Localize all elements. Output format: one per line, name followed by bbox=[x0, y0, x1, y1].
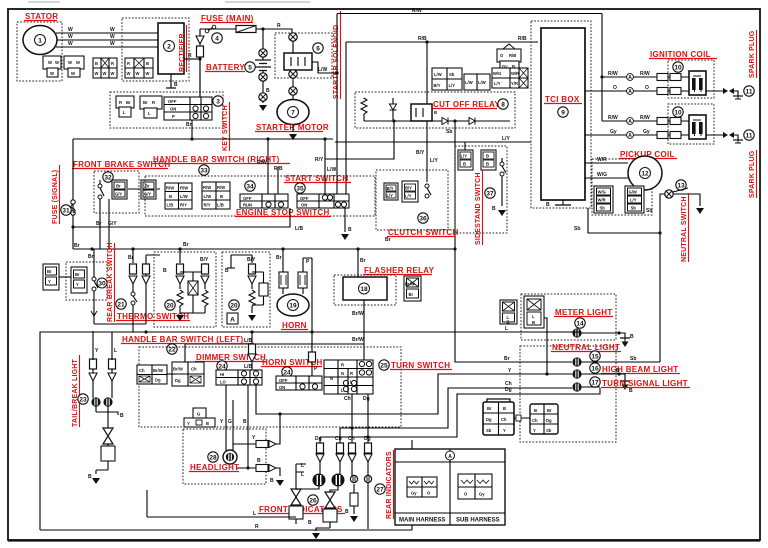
connector block 3 B-R/WWW bbox=[93, 58, 117, 78]
svg-text:Y: Y bbox=[76, 282, 79, 287]
TCI dashed box bbox=[531, 21, 591, 208]
svg-text:W: W bbox=[71, 71, 75, 76]
svg-text:W: W bbox=[68, 27, 73, 33]
svg-text:15: 15 bbox=[591, 354, 599, 361]
spark plug 1 bbox=[706, 90, 723, 92]
svg-text:B: B bbox=[266, 88, 270, 94]
high beam wire Y bbox=[256, 374, 572, 414]
svg-text:FUSE (MAIN): FUSE (MAIN) bbox=[201, 14, 254, 23]
wire R/Y L/W drops to start switch bbox=[324, 139, 326, 194]
svg-text:TURN SWITCH: TURN SWITCH bbox=[391, 361, 450, 370]
svg-text:W/R: W/R bbox=[597, 157, 607, 163]
svg-text:B: B bbox=[463, 162, 466, 167]
wire R/W row3 bbox=[602, 120, 689, 122]
connector G/W L/Y Sb bbox=[625, 186, 644, 213]
svg-text:R/W: R/W bbox=[257, 160, 267, 166]
wire R into key switch bbox=[199, 59, 201, 97]
wire R/W row1 bbox=[602, 76, 689, 78]
horn feeds bbox=[283, 249, 303, 272]
svg-text:36: 36 bbox=[419, 216, 427, 223]
svg-text:Y: Y bbox=[187, 421, 190, 426]
svg-text:G/W: G/W bbox=[629, 190, 637, 195]
svg-text:FLASHER RELAY: FLASHER RELAY bbox=[364, 266, 435, 275]
node 3 bbox=[213, 96, 223, 106]
pickup coil G2 bbox=[628, 156, 662, 190]
svg-text:W: W bbox=[48, 60, 52, 65]
svg-text:Br: Br bbox=[145, 184, 150, 189]
spark plug 2 bbox=[706, 134, 723, 136]
svg-text:R/Y: R/Y bbox=[180, 203, 187, 208]
svg-text:START SWITCH: START SWITCH bbox=[285, 174, 348, 183]
rear brake switch S bbox=[92, 277, 96, 281]
svg-text:NEUTRAL SWITCH: NEUTRAL SWITCH bbox=[681, 196, 688, 262]
svg-text:Y: Y bbox=[503, 428, 506, 433]
indicator fuses bbox=[317, 443, 324, 453]
fuse main F1 bbox=[200, 28, 236, 30]
tail bulbs bbox=[91, 397, 100, 406]
svg-text:A: A bbox=[230, 317, 235, 324]
wire meter B drop bbox=[544, 318, 547, 374]
headlight dashed box bbox=[183, 429, 266, 484]
cut off relay K2 bbox=[411, 104, 432, 121]
front brake switch S bbox=[98, 184, 102, 188]
svg-text:17: 17 bbox=[591, 380, 599, 387]
svg-text:B: B bbox=[616, 368, 620, 374]
svg-text:Br: Br bbox=[385, 237, 391, 243]
svg-text:OFF: OFF bbox=[243, 196, 252, 201]
svg-text:35: 35 bbox=[296, 186, 304, 193]
svg-text:Ch: Ch bbox=[532, 418, 538, 423]
sidestand connector b bbox=[481, 150, 496, 170]
svg-text:Dg: Dg bbox=[175, 378, 181, 383]
svg-text:B: B bbox=[88, 474, 92, 480]
svg-text:Br: Br bbox=[547, 408, 552, 413]
svg-text:L/Y: L/Y bbox=[461, 154, 468, 159]
svg-text:R: R bbox=[119, 100, 122, 105]
svg-text:HANDLE BAR SWITCH (LEFT): HANDLE BAR SWITCH (LEFT) bbox=[122, 335, 243, 344]
node 23 bbox=[78, 394, 88, 404]
front brake dashed box bbox=[94, 171, 139, 213]
svg-text:REAR INDICATORS: REAR INDICATORS bbox=[386, 451, 393, 519]
svg-text:Br: Br bbox=[143, 100, 148, 105]
svg-text:26: 26 bbox=[309, 498, 317, 505]
svg-text:Br/W: Br/W bbox=[405, 282, 415, 287]
svg-text:B: B bbox=[534, 408, 537, 413]
svg-text:B/Y: B/Y bbox=[434, 83, 441, 88]
svg-text:4: 4 bbox=[215, 36, 219, 43]
svg-text:Sb: Sb bbox=[446, 129, 452, 135]
connector row L/W Sb B/Y L/Y bbox=[432, 68, 528, 90]
diode in relay bbox=[390, 104, 397, 110]
svg-text:B: B bbox=[146, 61, 149, 66]
dimmer HI/LO table bbox=[216, 370, 262, 385]
clutch connector a bbox=[384, 183, 398, 200]
svg-text:L/Y: L/Y bbox=[630, 198, 637, 203]
svg-text:B: B bbox=[206, 421, 209, 426]
svg-text:W: W bbox=[111, 71, 115, 76]
start switch table bbox=[297, 194, 349, 208]
svg-text:RUN: RUN bbox=[243, 203, 252, 208]
svg-text:OFF: OFF bbox=[168, 99, 177, 104]
svg-text:Sb: Sb bbox=[600, 206, 606, 211]
fuse signal F2 bbox=[72, 139, 74, 249]
wire Sb drop bbox=[454, 121, 456, 249]
svg-text:R/Y: R/Y bbox=[204, 203, 211, 208]
svg-text:10: 10 bbox=[674, 65, 682, 72]
svg-text:L: L bbox=[148, 111, 151, 116]
svg-text:Ch: Ch bbox=[191, 367, 197, 372]
turn switch table bbox=[324, 360, 373, 394]
svg-text:11: 11 bbox=[746, 133, 753, 140]
svg-text:Sb: Sb bbox=[631, 206, 637, 211]
flasher dashed box bbox=[334, 275, 396, 305]
svg-text:L/W: L/W bbox=[204, 194, 212, 199]
label TURN SWITCH bbox=[379, 360, 389, 370]
6pin connector b bbox=[514, 404, 558, 434]
wire P riser from horn switch bbox=[303, 258, 312, 332]
branch bulb box bbox=[188, 281, 198, 295]
svg-text:B: B bbox=[503, 406, 506, 411]
svg-text:CUT OFF RELAY: CUT OFF RELAY bbox=[433, 100, 501, 109]
sub harness connector bbox=[458, 474, 492, 499]
neutral light wire Br bbox=[455, 249, 572, 362]
meter light bulb bbox=[572, 328, 581, 337]
svg-text:P: P bbox=[172, 114, 175, 119]
svg-text:Y/R: Y/R bbox=[511, 81, 518, 86]
svg-text:Br: Br bbox=[487, 406, 492, 411]
wire O row2 bbox=[585, 90, 689, 92]
svg-text:B: B bbox=[308, 520, 312, 526]
sidestand dashed box bbox=[455, 146, 507, 233]
label CUT OFF RELAY bbox=[355, 92, 515, 128]
branch B fuse bbox=[179, 249, 181, 289]
connector W block 1 bbox=[43, 56, 61, 77]
connector Br G/Y b bbox=[128, 180, 160, 199]
svg-text:R/B: R/B bbox=[509, 53, 516, 58]
svg-text:W: W bbox=[68, 41, 73, 47]
wire Br feed line bbox=[73, 138, 333, 140]
wire Ch to lights bbox=[340, 388, 572, 428]
svg-text:Br: Br bbox=[504, 356, 510, 362]
svg-text:Dg: Dg bbox=[486, 417, 492, 422]
svg-text:10: 10 bbox=[674, 110, 682, 117]
connector Br/Y b bbox=[59, 267, 87, 293]
diode D3 bbox=[469, 118, 475, 125]
svg-text:R/W: R/W bbox=[180, 186, 188, 191]
branch B entry box2 bbox=[231, 255, 252, 263]
svg-text:Sb: Sb bbox=[486, 428, 492, 433]
lights unit dashed box 1 bbox=[154, 252, 216, 327]
battery BT1 bbox=[262, 29, 264, 49]
svg-text:L/W: L/W bbox=[180, 194, 188, 199]
label HIGH BEAM LIGHT bbox=[590, 363, 600, 373]
rear brake dashed box bbox=[66, 262, 107, 300]
svg-text:A: A bbox=[628, 133, 632, 139]
svg-text:B: B bbox=[546, 202, 550, 208]
svg-text:HI: HI bbox=[220, 372, 224, 377]
stator generator G1 bbox=[23, 26, 57, 55]
front indicator bulbs bbox=[313, 474, 326, 487]
svg-text:IGNITION COIL: IGNITION COIL bbox=[650, 50, 711, 59]
svg-text:TURN SIGNAL LIGHT: TURN SIGNAL LIGHT bbox=[602, 379, 688, 388]
svg-text:20: 20 bbox=[166, 303, 174, 310]
svg-text:HORN: HORN bbox=[282, 321, 307, 330]
svg-text:NEUTRAL LIGHT: NEUTRAL LIGHT bbox=[552, 343, 620, 352]
wire L/W from solenoid bbox=[312, 62, 337, 73]
svg-text:B: B bbox=[220, 194, 223, 199]
svg-text:Br: Br bbox=[276, 255, 282, 261]
svg-text:27: 27 bbox=[376, 487, 384, 494]
svg-text:9: 9 bbox=[561, 110, 565, 117]
svg-text:L/B: L/B bbox=[295, 226, 303, 232]
svg-text:B/Y: B/Y bbox=[247, 257, 256, 263]
svg-text:L: L bbox=[505, 326, 508, 332]
svg-text:13: 13 bbox=[677, 183, 685, 190]
svg-text:L: L bbox=[114, 348, 117, 354]
solenoid dashed box bbox=[275, 33, 332, 78]
wire R/W riser to coils bbox=[601, 14, 603, 122]
flasher feed bbox=[357, 249, 359, 277]
horn switch table bbox=[276, 376, 322, 390]
svg-text:Gy: Gy bbox=[479, 492, 485, 497]
svg-text:O: O bbox=[645, 85, 649, 91]
svg-text:7: 7 bbox=[291, 110, 295, 117]
svg-text:Sb: Sb bbox=[546, 428, 552, 433]
svg-text:W/G: W/G bbox=[598, 190, 606, 195]
wire R/B riser left bbox=[345, 42, 347, 194]
connector Br G/Y a bbox=[112, 180, 127, 199]
wire rectifier B ground bbox=[170, 74, 172, 86]
svg-text:B: B bbox=[95, 61, 98, 66]
wire L/Y drop to sidestand bbox=[464, 142, 466, 150]
svg-text:33: 33 bbox=[200, 168, 208, 175]
svg-text:RECTIFIER: RECTIFIER bbox=[179, 33, 186, 72]
label TURN SIGNAL LIGHT bbox=[590, 377, 600, 387]
svg-text:B: B bbox=[345, 509, 349, 515]
svg-text:Ch: Ch bbox=[335, 436, 342, 442]
diode D2 bbox=[442, 118, 448, 125]
svg-text:Br/W: Br/W bbox=[352, 311, 364, 317]
svg-text:Gy: Gy bbox=[610, 129, 617, 135]
svg-text:B: B bbox=[492, 206, 496, 212]
svg-text:ON: ON bbox=[170, 107, 176, 112]
svg-text:W: W bbox=[110, 41, 115, 47]
svg-text:B/Y: B/Y bbox=[200, 257, 209, 263]
svg-text:6: 6 bbox=[316, 46, 320, 53]
svg-text:11: 11 bbox=[746, 89, 753, 96]
svg-text:W: W bbox=[50, 71, 54, 76]
svg-text:Br: Br bbox=[183, 242, 189, 248]
svg-text:B: B bbox=[169, 194, 172, 199]
svg-text:8: 8 bbox=[501, 102, 505, 109]
svg-text:Y: Y bbox=[533, 428, 536, 433]
svg-text:ENGINE STOP SWITCH: ENGINE STOP SWITCH bbox=[236, 208, 330, 217]
svg-text:B: B bbox=[348, 227, 352, 233]
svg-text:W/G: W/G bbox=[493, 71, 501, 76]
svg-text:L: L bbox=[253, 511, 256, 517]
svg-text:SPARK PLUG: SPARK PLUG bbox=[749, 150, 756, 198]
wire P into horn switch bbox=[311, 332, 313, 352]
svg-text:W: W bbox=[146, 71, 150, 76]
wire left main drop bbox=[39, 332, 41, 531]
wire Br/W cross line bbox=[185, 343, 364, 345]
svg-text:W: W bbox=[95, 71, 99, 76]
svg-text:L/Y: L/Y bbox=[387, 193, 394, 198]
svg-text:R: R bbox=[188, 53, 192, 59]
svg-text:B: B bbox=[629, 388, 633, 394]
svg-text:ON: ON bbox=[279, 385, 285, 390]
svg-text:Br: Br bbox=[75, 272, 80, 277]
svg-text:B: B bbox=[225, 268, 229, 274]
headlight B return bbox=[237, 467, 256, 469]
horn B1 bbox=[277, 294, 309, 316]
wire Br rail bbox=[73, 248, 455, 250]
svg-text:A: A bbox=[628, 119, 632, 125]
svg-text:Br: Br bbox=[47, 269, 52, 274]
svg-text:W: W bbox=[68, 34, 73, 40]
wire L/B from stop switch bbox=[73, 208, 290, 227]
svg-text:Br/W: Br/W bbox=[352, 337, 364, 343]
meter connector a bbox=[500, 300, 517, 325]
svg-text:Dg: Dg bbox=[546, 418, 552, 423]
svg-text:W/R: W/R bbox=[511, 71, 519, 76]
svg-text:Br: Br bbox=[360, 258, 366, 264]
starter motor M1 bbox=[277, 100, 309, 125]
svg-text:B: B bbox=[630, 334, 634, 340]
svg-text:STATOR: STATOR bbox=[25, 12, 58, 21]
branch small box2 element bbox=[259, 283, 268, 296]
branch B/Y fuse box2 bbox=[251, 255, 253, 289]
stator dashed box bbox=[17, 22, 62, 81]
svg-text:Sb: Sb bbox=[449, 72, 455, 77]
svg-text:Ch: Ch bbox=[501, 417, 507, 422]
wire Br from key switch bbox=[191, 120, 193, 139]
svg-text:L/B: L/B bbox=[244, 364, 252, 370]
svg-text:1: 1 bbox=[38, 38, 42, 45]
handlebar right connector table 1 bbox=[165, 183, 192, 209]
svg-text:L/B: L/B bbox=[217, 203, 224, 208]
wire R/W top rail bbox=[337, 13, 602, 15]
svg-text:Dg: Dg bbox=[155, 378, 161, 383]
flasher connector bbox=[404, 276, 421, 301]
svg-text:R/W: R/W bbox=[640, 115, 650, 121]
svg-text:N: N bbox=[341, 371, 344, 376]
svg-text:B/Y: B/Y bbox=[405, 186, 412, 191]
svg-text:L/B: L/B bbox=[167, 203, 174, 208]
svg-text:REAR BREAK SWITCH: REAR BREAK SWITCH bbox=[107, 242, 114, 322]
svg-text:Sb: Sb bbox=[630, 356, 636, 362]
svg-text:W: W bbox=[110, 34, 115, 40]
wire Br/W into dimmer bbox=[184, 344, 186, 362]
svg-text:TCI BOX: TCI BOX bbox=[545, 95, 580, 104]
node 13 bbox=[676, 180, 686, 190]
svg-text:ON: ON bbox=[301, 203, 307, 208]
svg-text:L/Y: L/Y bbox=[405, 194, 412, 199]
main/sub harness box bbox=[395, 449, 505, 525]
wire Br/W into turn switch bbox=[363, 344, 365, 360]
key switch S2 table OFF/ON/P bbox=[164, 97, 212, 120]
svg-text:G: G bbox=[197, 412, 200, 417]
svg-text:B: B bbox=[163, 268, 167, 274]
svg-text:18: 18 bbox=[360, 286, 368, 293]
svg-text:W: W bbox=[76, 60, 80, 65]
neutral switch S bbox=[665, 190, 673, 198]
svg-text:FRONT BRAKE SWITCH: FRONT BRAKE SWITCH bbox=[73, 160, 170, 169]
svg-text:R/Y: R/Y bbox=[315, 157, 324, 163]
svg-text:L: L bbox=[123, 110, 126, 115]
svg-text:R/W: R/W bbox=[203, 185, 211, 190]
node 26 bbox=[308, 495, 318, 505]
svg-text:14: 14 bbox=[576, 321, 584, 328]
svg-text:R/W: R/W bbox=[608, 71, 618, 77]
svg-text:Br: Br bbox=[126, 100, 131, 105]
svg-text:Br: Br bbox=[186, 122, 192, 128]
svg-text:FUSE (SIGNAL): FUSE (SIGNAL) bbox=[52, 170, 59, 224]
wire R/B rail bbox=[346, 41, 538, 43]
svg-text:MAIN HARNESS: MAIN HARNESS bbox=[399, 518, 445, 524]
svg-text:R/B: R/B bbox=[418, 36, 427, 42]
svg-text:R/W: R/W bbox=[608, 115, 618, 121]
svg-text:R: R bbox=[341, 363, 344, 368]
TCI ground bbox=[562, 200, 564, 205]
dimmer connector a bbox=[137, 365, 167, 384]
branch fuse x146 bbox=[146, 255, 160, 324]
svg-text:METER LIGHT: METER LIGHT bbox=[555, 308, 613, 317]
thermo branch bbox=[132, 249, 134, 263]
dimmer connector b bbox=[172, 362, 204, 386]
svg-text:L/W: L/W bbox=[434, 72, 442, 77]
svg-text:Gy: Gy bbox=[643, 129, 650, 135]
svg-text:Sb: Sb bbox=[646, 208, 652, 214]
svg-text:L/B: L/B bbox=[244, 338, 252, 344]
svg-text:B: B bbox=[507, 320, 510, 325]
svg-text:R/B: R/B bbox=[518, 36, 527, 42]
svg-text:Br: Br bbox=[409, 292, 414, 297]
svg-text:31: 31 bbox=[62, 208, 70, 215]
rectifier U1 bbox=[158, 23, 184, 74]
branch B/Y fuse bbox=[204, 263, 206, 289]
svg-text:3: 3 bbox=[216, 99, 220, 106]
svg-text:W: W bbox=[136, 71, 140, 76]
wire 3-phase W bbox=[56, 33, 158, 47]
svg-text:37: 37 bbox=[486, 191, 494, 198]
ignition coil T1 bbox=[689, 71, 706, 95]
flasher relay K3 bbox=[343, 277, 387, 300]
svg-text:R/W: R/W bbox=[412, 8, 422, 14]
connector block 4 R-B/WWW bbox=[125, 58, 153, 78]
svg-text:W: W bbox=[103, 71, 107, 76]
svg-text:KEY SWITCH: KEY SWITCH bbox=[222, 105, 229, 151]
svg-text:16: 16 bbox=[591, 366, 599, 373]
wire relay bottom line bbox=[364, 120, 510, 122]
clutch connector b bbox=[402, 181, 418, 202]
svg-text:TAIL/BREAK LIGHT: TAIL/BREAK LIGHT bbox=[72, 358, 79, 427]
svg-text:L/Y: L/Y bbox=[430, 158, 438, 164]
svg-text:Br: Br bbox=[128, 255, 134, 261]
svg-text:B: B bbox=[532, 320, 535, 325]
svg-text:SUB HARNESS: SUB HARNESS bbox=[456, 518, 500, 524]
wire dimmer outputs Y G B bbox=[226, 385, 248, 468]
ignition coil 2 dashed bbox=[668, 104, 714, 144]
big dashed box lights bbox=[520, 346, 616, 442]
node 4 bbox=[212, 33, 222, 43]
main harness connector bbox=[407, 477, 437, 497]
svg-text:G: G bbox=[228, 419, 232, 425]
wire Br/W down from flasher bbox=[363, 300, 365, 344]
connector R-Br/L bbox=[116, 96, 134, 117]
svg-text:OFF: OFF bbox=[279, 378, 288, 383]
node 21 bbox=[116, 299, 126, 309]
